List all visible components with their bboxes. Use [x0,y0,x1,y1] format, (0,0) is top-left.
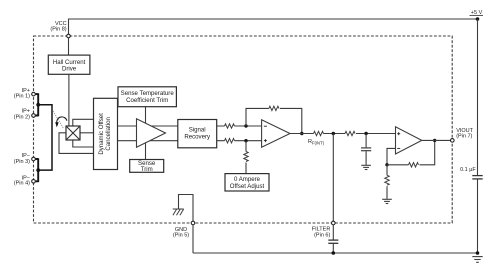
resistor offset [244,152,248,162]
IC boundary dashed box [34,36,453,223]
node feedback junction [300,132,303,135]
label IP- (Pin 3) [14,153,30,165]
wire current conductor loop [38,105,52,170]
svg-text:Coefficient Trim: Coefficient Trim [126,97,168,104]
block Sense Temperature Coefficient Trim [118,87,176,107]
wire feedback top loop [246,108,302,133]
block 0 Ampere Offset Adjust [225,174,269,191]
node filter junction [332,132,335,135]
label +5 V [470,10,484,16]
node bottom junction [244,139,247,142]
ground U3 gain [382,199,392,203]
svg-text:(Pin 4): (Pin 4) [14,181,30,187]
wire signal top [217,125,262,127]
node filter bottom junction [332,251,336,255]
node +5V junction [476,17,480,21]
label VIOUT (Pin 7) [456,128,473,140]
capacitor filter external [328,225,338,253]
hall element X [66,126,80,140]
wire amp1 input bottom [118,140,178,142]
svg-text:Recovery: Recovery [184,133,211,140]
svg-text:Drive: Drive [62,66,77,73]
svg-text:Offset Adjust: Offset Adjust [230,183,265,190]
pin VCC (Pin 8) [67,34,71,38]
node bottom-right junction [476,251,480,255]
label FILTER (Pin 6) [312,227,331,239]
wire IP- pin bus bar [36,158,39,182]
wire bottom ground rail [193,252,478,254]
U3 minus [397,147,400,149]
wire signal bottom [217,140,262,142]
svg-text:Cancellation: Cancellation [105,117,112,151]
node U3 output junction [433,139,436,142]
node top junction [244,124,247,127]
svg-text:0.1 µF: 0.1 µF [460,167,476,173]
svg-text:F(INT): F(INT) [312,141,325,146]
wire hall plate sense bottom [73,140,94,147]
op-amp U2 [262,120,290,148]
ground lowpass [361,165,371,169]
label GND (Pin 5) [173,227,189,239]
wire U2 output [290,133,396,135]
wire filter vertical [332,134,334,221]
resistor feedback [269,106,279,110]
wire VCC rail top [69,19,478,34]
pin FILTER (Pin 6) [332,221,336,225]
wire U3 gain ground branch [386,165,388,199]
svg-text:(Pin 3): (Pin 3) [14,159,30,165]
node cap junction [364,132,367,135]
resistor bottom [225,139,235,143]
svg-text:Trim: Trim [141,166,153,173]
resistor RF(INT) [314,131,324,135]
resistor lowpass [345,131,355,135]
wire GND pin up to chassis [179,195,194,221]
label RF(INT) [308,139,325,146]
label IP+ (Pin 2) [14,109,30,121]
node IP+ junction [36,103,40,107]
label VCC (Pin 8) [50,21,66,32]
block Hall Current Drive [48,55,90,74]
block Signal Recovery [178,120,217,148]
pin IP- (Pin 3) [32,157,36,161]
wire flux diagonal [53,111,64,129]
wire hall plate sense top [73,119,94,126]
chassis ground symbol [173,209,184,215]
pin GND (Pin 5) [191,221,195,225]
U3 plus [397,132,400,135]
capacitor 0.1uF bypass [472,176,482,179]
wire amp1 input top [118,125,178,127]
pin IP+ (Pin 2) [32,114,36,118]
resistor U3 gain [385,175,389,185]
node U3 fb junction [385,163,388,166]
capacitor lowpass [361,134,371,165]
pin VIOUT (Pin 7) [451,139,455,143]
wire U3 feedback [387,140,435,164]
resistor U3 feedback [409,163,419,167]
wire trim vertical [145,107,147,160]
node IP- junction [36,168,40,172]
op-amp U1 [137,119,166,148]
wire U3 inverting input [387,148,396,164]
wire right rail lower [477,180,479,254]
label IP- (Pin 4) [14,175,30,186]
wire +5V rail right side [477,19,479,175]
op-amp U3 [396,127,422,154]
current direction arrow [55,117,67,128]
svg-text:(Pin 7): (Pin 7) [456,134,472,140]
svg-text:(Pin 2): (Pin 2) [14,114,30,120]
wire U3 output to VIOUT [422,139,450,141]
pin IP- (Pin 4) [32,180,36,184]
wire offset branch [245,141,247,174]
U2 minus [264,125,267,127]
ground symbol bottom right [472,257,482,263]
svg-text:(Pin 1): (Pin 1) [14,94,30,100]
wire IP+ pin bus bar [36,93,39,116]
label IP+ (Pin 1) [14,88,30,100]
svg-text:(Pin 6): (Pin 6) [314,232,330,238]
wire Hall Current Drive to hall plate [68,74,70,126]
resistor top [225,124,235,128]
wire GND pin down to rail [192,225,194,253]
block Dynamic Offset Cancellation [94,98,118,169]
wire hall plate sense right [80,132,94,134]
wire VCC pin to Hall Current Drive [68,38,70,55]
svg-text:(Pin 8): (Pin 8) [50,27,66,33]
block Sense Trim [130,160,164,173]
wire hall plate sense left loop [59,133,94,154]
svg-text:(Pin 5): (Pin 5) [173,233,189,239]
U2 plus [264,139,267,142]
svg-text:Dynamic Offset: Dynamic Offset [98,113,105,155]
pin IP+ (Pin 1) [32,92,36,96]
